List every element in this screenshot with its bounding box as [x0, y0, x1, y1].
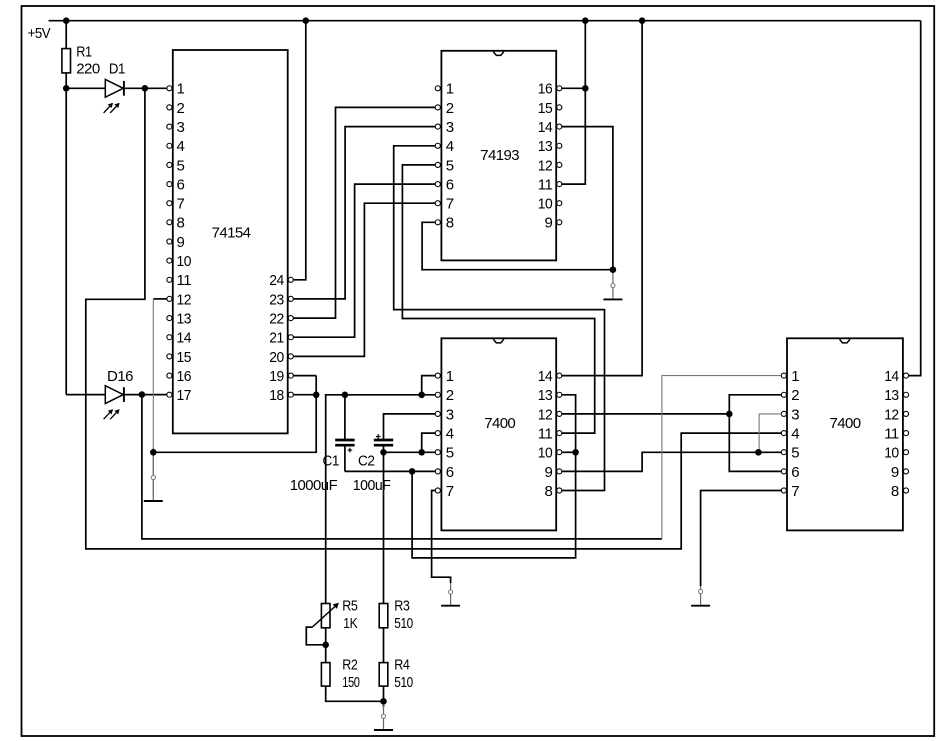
- svg-text:16: 16: [177, 368, 192, 385]
- svg-text:6: 6: [446, 464, 454, 481]
- svg-text:21: 21: [269, 330, 284, 347]
- svg-text:R3: R3: [394, 597, 409, 614]
- svg-text:D16: D16: [107, 368, 133, 385]
- svg-text:220: 220: [76, 61, 100, 78]
- svg-text:6: 6: [446, 177, 454, 194]
- svg-text:4: 4: [791, 425, 799, 442]
- svg-text:5: 5: [791, 445, 799, 462]
- svg-text:510: 510: [394, 615, 413, 632]
- svg-text:100uF: 100uF: [353, 477, 391, 494]
- svg-text:15: 15: [538, 100, 553, 117]
- svg-text:1: 1: [446, 81, 454, 98]
- svg-text:17: 17: [177, 387, 192, 404]
- svg-text:10: 10: [177, 253, 192, 270]
- svg-text:3: 3: [791, 406, 799, 423]
- svg-text:2: 2: [446, 100, 454, 117]
- svg-text:7: 7: [791, 483, 799, 500]
- svg-text:74193: 74193: [480, 147, 519, 164]
- svg-text:12: 12: [538, 157, 553, 174]
- svg-text:D1: D1: [109, 61, 125, 78]
- svg-text:13: 13: [884, 387, 899, 404]
- svg-text:14: 14: [538, 368, 553, 385]
- svg-text:3: 3: [177, 119, 185, 136]
- svg-text:11: 11: [538, 177, 553, 194]
- svg-text:2: 2: [177, 100, 185, 117]
- svg-text:1: 1: [446, 368, 454, 385]
- svg-text:14: 14: [538, 119, 553, 136]
- svg-text:150: 150: [342, 674, 360, 691]
- svg-text:11: 11: [538, 425, 553, 442]
- svg-text:12: 12: [538, 406, 553, 423]
- svg-text:R2: R2: [342, 657, 357, 674]
- svg-text:5: 5: [177, 157, 185, 174]
- svg-text:13: 13: [538, 387, 553, 404]
- svg-text:1000uF: 1000uF: [290, 477, 338, 494]
- svg-text:15: 15: [177, 349, 192, 366]
- svg-text:12: 12: [177, 291, 192, 308]
- svg-text:8: 8: [891, 483, 899, 500]
- svg-text:9: 9: [177, 234, 185, 251]
- svg-text:7: 7: [446, 483, 454, 500]
- svg-text:R5: R5: [342, 597, 357, 614]
- svg-text:7400: 7400: [830, 415, 861, 432]
- svg-text:5: 5: [446, 157, 454, 174]
- svg-text:14: 14: [177, 330, 192, 347]
- svg-text:6: 6: [177, 177, 185, 194]
- svg-text:R1: R1: [76, 44, 92, 61]
- svg-text:24: 24: [269, 272, 284, 289]
- svg-text:11: 11: [884, 425, 899, 442]
- svg-text:4: 4: [446, 138, 454, 155]
- svg-text:8: 8: [446, 215, 454, 232]
- svg-text:6: 6: [791, 464, 799, 481]
- svg-text:2: 2: [446, 387, 454, 404]
- svg-text:2: 2: [791, 387, 799, 404]
- svg-text:9: 9: [891, 464, 899, 481]
- svg-text:510: 510: [394, 674, 413, 691]
- svg-text:13: 13: [177, 311, 192, 328]
- svg-text:10: 10: [538, 196, 553, 213]
- svg-text:22: 22: [269, 311, 284, 328]
- svg-text:8: 8: [177, 215, 185, 232]
- svg-text:7: 7: [177, 196, 185, 213]
- svg-text:C2: C2: [358, 453, 375, 470]
- svg-text:1: 1: [177, 81, 185, 98]
- svg-text:9: 9: [544, 215, 552, 232]
- svg-text:18: 18: [269, 387, 284, 404]
- svg-text:20: 20: [269, 349, 284, 366]
- svg-text:4: 4: [177, 138, 185, 155]
- svg-text:R4: R4: [394, 657, 409, 674]
- svg-text:10: 10: [884, 445, 899, 462]
- svg-text:1K: 1K: [343, 615, 357, 632]
- svg-text:19: 19: [269, 368, 284, 385]
- svg-text:14: 14: [884, 368, 899, 385]
- svg-text:11: 11: [177, 272, 192, 289]
- svg-text:3: 3: [446, 119, 454, 136]
- svg-text:16: 16: [538, 81, 553, 98]
- svg-text:7400: 7400: [484, 415, 515, 432]
- svg-text:5: 5: [446, 445, 454, 462]
- svg-text:12: 12: [884, 406, 899, 423]
- svg-text:10: 10: [538, 445, 553, 462]
- svg-text:13: 13: [538, 138, 553, 155]
- svg-text:23: 23: [269, 291, 284, 308]
- svg-text:3: 3: [446, 406, 454, 423]
- svg-text:4: 4: [446, 425, 454, 442]
- svg-text:74154: 74154: [212, 224, 251, 241]
- svg-text:+5V: +5V: [28, 25, 51, 42]
- svg-text:9: 9: [544, 464, 552, 481]
- svg-text:1: 1: [791, 368, 799, 385]
- svg-text:7: 7: [446, 196, 454, 213]
- svg-text:8: 8: [544, 483, 552, 500]
